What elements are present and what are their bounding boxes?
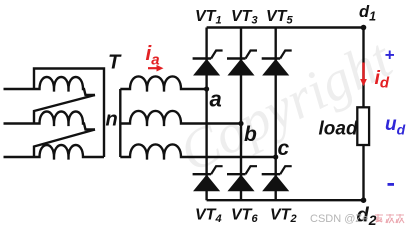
wire bridge top rail: [207, 26, 364, 28]
wire diagonal W2-W3: [34, 130, 95, 158]
svg-text:VT2: VT2: [270, 207, 297, 226]
arrow i_a: [148, 67, 159, 69]
wire delta top rail: [34, 69, 104, 158]
wire input line 1 (phase A primary): [4, 88, 35, 90]
node d2: [361, 197, 367, 203]
wire load column: [362, 28, 364, 108]
wire diagonal W1-W2: [34, 95, 95, 124]
thyristor VT5: [262, 51, 292, 76]
node a: [204, 86, 209, 91]
node c: [273, 154, 278, 159]
thyristor VT2: [262, 166, 292, 191]
arrow i_d: [362, 63, 364, 81]
svg-text:b: b: [244, 123, 257, 146]
thyristor VT6: [227, 166, 257, 191]
wire secondary star vertical: [119, 89, 121, 157]
load resistor: [357, 107, 369, 145]
svg-text:VT4: VT4: [195, 207, 222, 226]
svg-text:T: T: [108, 52, 122, 74]
node d1: [361, 25, 367, 31]
secondary winding a: [120, 76, 206, 91]
svg-text:CSDN @Ze: CSDN @Ze: [310, 213, 368, 225]
primary winding 2: [34, 112, 95, 130]
svg-text:n: n: [106, 109, 118, 131]
secondary winding b: [120, 111, 241, 126]
svg-text:VT1: VT1: [195, 8, 222, 27]
wire bridge leg 2: [240, 28, 242, 201]
wire bridge leg 1: [205, 28, 207, 201]
wire bridge leg 3: [275, 28, 277, 201]
svg-text:ia: ia: [146, 42, 160, 69]
watermark Copyright: [170, 27, 402, 184]
label minus: [388, 183, 395, 186]
wire input line 3 (phase C primary): [4, 156, 35, 158]
svg-text:ud: ud: [385, 114, 406, 138]
svg-text:d1: d1: [359, 3, 376, 24]
svg-text:load: load: [319, 119, 358, 140]
secondary winding c: [120, 144, 275, 159]
node b: [238, 121, 243, 126]
wire bridge bottom rail: [207, 199, 364, 201]
svg-text:a: a: [210, 87, 222, 112]
thyristor VT1: [193, 51, 223, 76]
thyristor VT4: [193, 166, 223, 191]
thyristor VT3: [227, 51, 257, 76]
wire input line 2 (phase B primary): [4, 122, 35, 124]
primary winding 3: [34, 145, 104, 160]
svg-text:VT6: VT6: [231, 207, 258, 226]
svg-text:+: +: [385, 46, 395, 65]
svg-text:VT5: VT5: [266, 8, 293, 27]
svg-text:c: c: [278, 137, 290, 160]
svg-text:VT3: VT3: [231, 8, 258, 27]
primary winding 1: [34, 77, 95, 95]
